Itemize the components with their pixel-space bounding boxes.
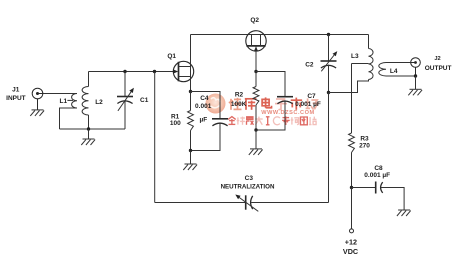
node R3/C8/+12 (350, 186, 353, 189)
wire Q1 drain to top rail (190, 35, 192, 92)
capacitor C8 (352, 182, 405, 210)
svg-text:0.001 µF: 0.001 µF (295, 101, 321, 108)
inductor L1 (72, 94, 77, 109)
wire L2 to Q1 gate (89, 71, 174, 73)
inductor L3 (352, 35, 374, 93)
wire neutralization bottom right (251, 93, 328, 203)
resistor R1 (188, 92, 194, 151)
svg-text:L1: L1 (60, 98, 68, 105)
node Q2 gate (254, 70, 257, 73)
inductor L4 (379, 63, 386, 77)
junction rail/ground (87, 127, 90, 130)
label R2 100K (231, 91, 247, 108)
wire top rail Q1 drain to L3 (191, 34, 369, 36)
wire neutralization left (154, 72, 156, 203)
node R2/C7 bottom (254, 128, 257, 131)
connector J2 (411, 58, 421, 76)
variable capacitor C2 (321, 35, 338, 93)
decorative watermark (206, 94, 318, 126)
+12 VDC terminal (350, 188, 354, 233)
inductor L2 (82, 72, 88, 130)
svg-text:C4: C4 (200, 95, 209, 102)
ground below J1 (30, 110, 44, 116)
svg-text:Q1: Q1 (167, 53, 176, 60)
transistor Q2 (246, 31, 266, 72)
svg-text:NEUTRALIZATION: NEUTRALIZATION (221, 183, 275, 190)
svg-text:0.001 µF: 0.001 µF (364, 172, 390, 179)
ground below L2 (81, 129, 95, 145)
svg-text:+12: +12 (345, 238, 357, 247)
wire tank bottom to R3 (329, 92, 352, 94)
svg-text:OUTPUT: OUTPUT (425, 65, 452, 72)
variable capacitor C1 (117, 72, 134, 130)
label R3 270 (359, 136, 370, 150)
label C8 0.001 uF (364, 165, 390, 179)
resistor R3 (349, 93, 355, 188)
svg-text:J2: J2 (434, 56, 440, 62)
svg-text:VDC: VDC (343, 247, 358, 256)
wire neutralization bottom left (155, 202, 246, 204)
capacitor C7 (256, 72, 293, 131)
label C7 0.001 uF (295, 93, 321, 108)
ground below C8 (397, 210, 411, 216)
node neutralization branch (153, 70, 156, 73)
label C3 NEUTRALIZATION (221, 175, 275, 191)
ground below J2 (408, 76, 422, 95)
variable capacitor C3 (235, 195, 258, 212)
svg-text:WWW.DZSC.COM: WWW.DZSC.COM (261, 110, 315, 116)
svg-text:C7: C7 (307, 93, 316, 100)
svg-text:C2: C2 (305, 62, 314, 69)
svg-text:C3: C3 (245, 175, 254, 182)
svg-text:L4: L4 (390, 68, 398, 75)
wire L4 top to J2 (386, 62, 411, 64)
wire ground rail (60, 128, 126, 130)
connector J1 (32, 88, 43, 110)
node C2 top (327, 33, 330, 36)
resistor R2 (253, 72, 259, 131)
svg-text:100: 100 (170, 120, 181, 127)
svg-text:270: 270 (359, 142, 370, 149)
svg-text:100K: 100K (231, 101, 247, 108)
node Q1 source (189, 90, 192, 93)
node J2 ground / L4 (414, 74, 417, 77)
svg-text:J1: J1 (12, 87, 20, 94)
ground below R2 (249, 130, 263, 155)
label J1 INPUT (6, 87, 26, 102)
label L1 with leader (60, 98, 74, 105)
wire L4 bottom to J2 ground (386, 75, 416, 77)
node tank bottom (327, 91, 330, 94)
wire L1 bottom to ground rail (60, 108, 78, 129)
label +12 VDC (343, 238, 358, 256)
node C1 branch (123, 70, 126, 73)
ground below R1 (183, 151, 197, 171)
label J2 OUTPUT (425, 56, 452, 72)
label R1 100 (170, 113, 181, 127)
svg-text:Q2: Q2 (250, 17, 259, 24)
node R1/C4 bottom (189, 149, 192, 152)
wire L3 tap (352, 64, 369, 93)
svg-text:L3: L3 (351, 53, 359, 60)
svg-text:INPUT: INPUT (6, 95, 26, 102)
svg-text:0.001: 0.001 (195, 103, 212, 110)
svg-text:C1: C1 (140, 97, 149, 104)
svg-text:µF: µF (200, 116, 208, 123)
transistor Q1 (173, 61, 194, 81)
svg-text:C8: C8 (374, 165, 383, 172)
label C4 0.001 uF (195, 95, 212, 123)
capacitor C4 (191, 92, 229, 151)
svg-text:L2: L2 (95, 99, 103, 106)
wire J1 to L1 (43, 93, 77, 95)
svg-text:R2: R2 (235, 91, 244, 98)
